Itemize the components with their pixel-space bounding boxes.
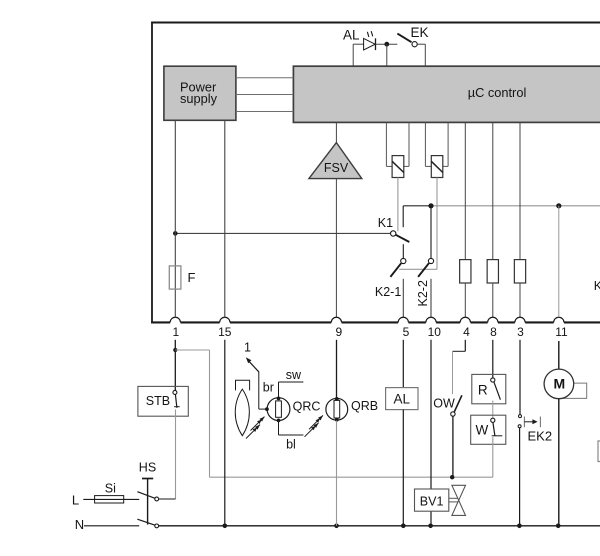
wire N from left [84, 525, 139, 527]
svg-text:L: L [72, 493, 79, 508]
wire µC to FSV [335, 122, 337, 144]
controller box µC control [293, 66, 600, 122]
wire terminal 3 to EK2 contact [519, 340, 521, 415]
svg-text:BV1: BV1 [420, 495, 444, 509]
wire thermostat W to bus [492, 437, 494, 477]
svg-text:W: W [476, 423, 489, 438]
light arrows at QRC [246, 417, 265, 439]
wire L to fuse Si [83, 498, 139, 500]
node on N line (x=519.4) [517, 524, 522, 529]
wire µC to resistor above terminal (x=465.3) [464, 122, 466, 259]
main switch HS pole 1 (L) [137, 492, 175, 501]
contact K1 [378, 206, 410, 242]
terminal 8 [488, 317, 498, 339]
wire FSV to terminal 9 [335, 179, 337, 318]
wire riser from node to µC [386, 44, 388, 66]
control unit boundary box [151, 22, 600, 324]
svg-text:8: 8 [490, 325, 497, 339]
svg-text:µC control: µC control [468, 85, 527, 100]
motor capacitor box [555, 383, 587, 398]
wire OW to thermostat bus [452, 416, 454, 477]
node bus to terminal 11 [556, 203, 561, 208]
resistor block above terminal (x=520.0) [514, 260, 525, 283]
valve symbol of BV1 [449, 485, 466, 515]
wire resistor to terminal (x=520.0) [519, 283, 521, 317]
electrode point 1 arrow [244, 340, 259, 371]
svg-text:sw: sw [286, 368, 302, 382]
svg-text:br: br [263, 381, 274, 395]
node on N line (x=430.6) [428, 524, 433, 529]
svg-text:K: K [594, 279, 600, 293]
mechanical link coil K2 to contacts K2 [399, 178, 437, 270]
light arrows at QRB [305, 415, 324, 436]
main switch HS pole 2 (N) [137, 519, 158, 528]
svg-text:15: 15 [218, 325, 232, 339]
resistor block above terminal (x=492.8) [487, 260, 498, 283]
svg-text:1: 1 [172, 325, 179, 339]
main switch HS linkage [139, 461, 156, 525]
photo detector QRC [265, 397, 320, 423]
node on N line (x=336.5) [334, 524, 339, 529]
wire LED to node [376, 43, 398, 45]
wire motor to N [558, 399, 560, 526]
wire terminal 8 to thermostat R [492, 340, 494, 380]
wire sw (black) of QRC [279, 368, 304, 397]
relay coil K1 [386, 122, 409, 177]
contact OW [433, 395, 462, 416]
wire resistor to terminal (x=492.8) [492, 283, 494, 317]
relay coil K2 [425, 122, 448, 177]
fuel valve coil BV1 [415, 489, 449, 511]
svg-text:K2-1: K2-1 [375, 285, 401, 299]
wire power supply to terminal 15 [224, 120, 226, 317]
wire terminal 10 to BV1 [430, 340, 432, 526]
contact K2-1 [375, 244, 406, 299]
svg-text:AL: AL [343, 28, 360, 43]
wire K2-2 to terminal 10 [430, 279, 432, 317]
node at fuse F top [173, 231, 178, 236]
svg-text:3: 3 [517, 325, 524, 339]
svg-text:F: F [188, 270, 196, 285]
label N [75, 517, 84, 532]
wire br (brown) of QRC [259, 372, 274, 410]
label K (cut at edge) [594, 279, 600, 293]
node on N line (x=558.2) [556, 524, 561, 529]
svg-text:1: 1 [244, 340, 251, 354]
wire bus to terminal 11 [558, 206, 560, 317]
node terminal 1 branch [173, 348, 177, 352]
wire terminal 1 to STB [174, 340, 176, 393]
terminal 5 [398, 317, 410, 339]
push button EK [397, 25, 428, 47]
wire QRB to N [336, 421, 338, 526]
resistor block above terminal (x=465.3) [460, 260, 471, 283]
wire bus from K1 to right edge [403, 205, 600, 207]
mechanical link coil K1 to contact K1 [397, 178, 399, 232]
wire power-supply to µC (3 lines) [236, 78, 294, 112]
terminal 1 [170, 317, 180, 339]
power supply box [164, 66, 236, 120]
wire terminal 1 node to K1 [175, 232, 390, 234]
partial component box at right edge [598, 441, 600, 462]
remote reset button EK2 [518, 415, 552, 444]
svg-text:K2-2: K2-2 [416, 280, 430, 306]
svg-text:5: 5 [403, 325, 410, 339]
wire EK to µC [417, 44, 425, 66]
alarm device AL [386, 388, 418, 410]
burner motor M [544, 369, 574, 399]
wire terminal 11 to motor [558, 341, 560, 369]
wire terminal 15 to N [224, 340, 226, 526]
wire µC to resistor above terminal (x=520.0) [519, 122, 521, 259]
terminal 15 [218, 317, 232, 339]
safety limit thermostat STB [138, 386, 188, 416]
svg-text:HS: HS [139, 461, 156, 475]
terminal 4 [460, 317, 470, 339]
fuse F [169, 233, 195, 317]
svg-text:K1: K1 [378, 216, 393, 230]
wire power supply to fuse F [174, 120, 176, 233]
contact K2-2 [416, 206, 433, 307]
svg-text:QRB: QRB [351, 399, 378, 413]
label L [72, 493, 79, 508]
wire µC to resistor above terminal (x=492.8) [492, 122, 494, 259]
node OW on thermostat bus [450, 475, 454, 479]
terminal 9 [331, 317, 342, 339]
svg-text:R: R [478, 382, 488, 397]
svg-text:FSV: FSV [324, 161, 349, 175]
svg-text:EK2: EK2 [528, 429, 553, 444]
wire STB to switch HS [175, 410, 177, 500]
svg-text:N: N [75, 517, 84, 532]
node junction above µC [384, 42, 389, 47]
LED AL [343, 28, 376, 51]
wire thermostat R to W [492, 401, 494, 419]
wire bl (blue) of QRC [279, 422, 304, 452]
terminal 11 [554, 317, 568, 339]
wire terminal 9 to QRB [336, 340, 338, 398]
svg-text:M: M [553, 376, 565, 392]
wire terminal 4 to OW [453, 340, 466, 394]
svg-text:QRC: QRC [293, 399, 321, 413]
wire K2-1 to terminal 5 [402, 279, 404, 317]
fuse Si [95, 481, 124, 503]
photo detector QRB [326, 397, 378, 422]
terminal strip base line [151, 321, 600, 323]
wire N line [159, 525, 600, 527]
svg-text:4: 4 [463, 325, 470, 339]
node bus to K2-2 [428, 203, 433, 208]
wire alarm AL to N [402, 410, 404, 526]
control thermostat R [472, 374, 506, 403]
terminal 10 [426, 317, 441, 339]
node on N line (x=224.8) [223, 524, 228, 529]
svg-text:Si: Si [105, 481, 116, 495]
svg-text:AL: AL [394, 392, 411, 407]
svg-text:10: 10 [428, 325, 442, 339]
wire riser left of AL LED [353, 44, 363, 66]
flame symbol [235, 380, 249, 435]
limit thermostat W [471, 415, 506, 444]
node on N line (x=403.3) [401, 524, 406, 529]
svg-text:supply: supply [180, 91, 218, 106]
svg-text:STB: STB [146, 394, 170, 408]
wire branch terminal1 to thermostat bus [175, 350, 493, 477]
flame signal amplifier FSV [309, 143, 362, 179]
wire terminal 5 to alarm AL [402, 340, 404, 388]
svg-text:OW: OW [433, 396, 455, 410]
svg-text:bl: bl [286, 437, 296, 451]
svg-text:EK: EK [411, 25, 429, 40]
terminal 3 [515, 317, 525, 339]
svg-text:9: 9 [335, 325, 342, 339]
svg-text:11: 11 [555, 325, 568, 339]
wire resistor to terminal (x=465.3) [464, 283, 466, 317]
wire EK2 to N [519, 428, 521, 526]
